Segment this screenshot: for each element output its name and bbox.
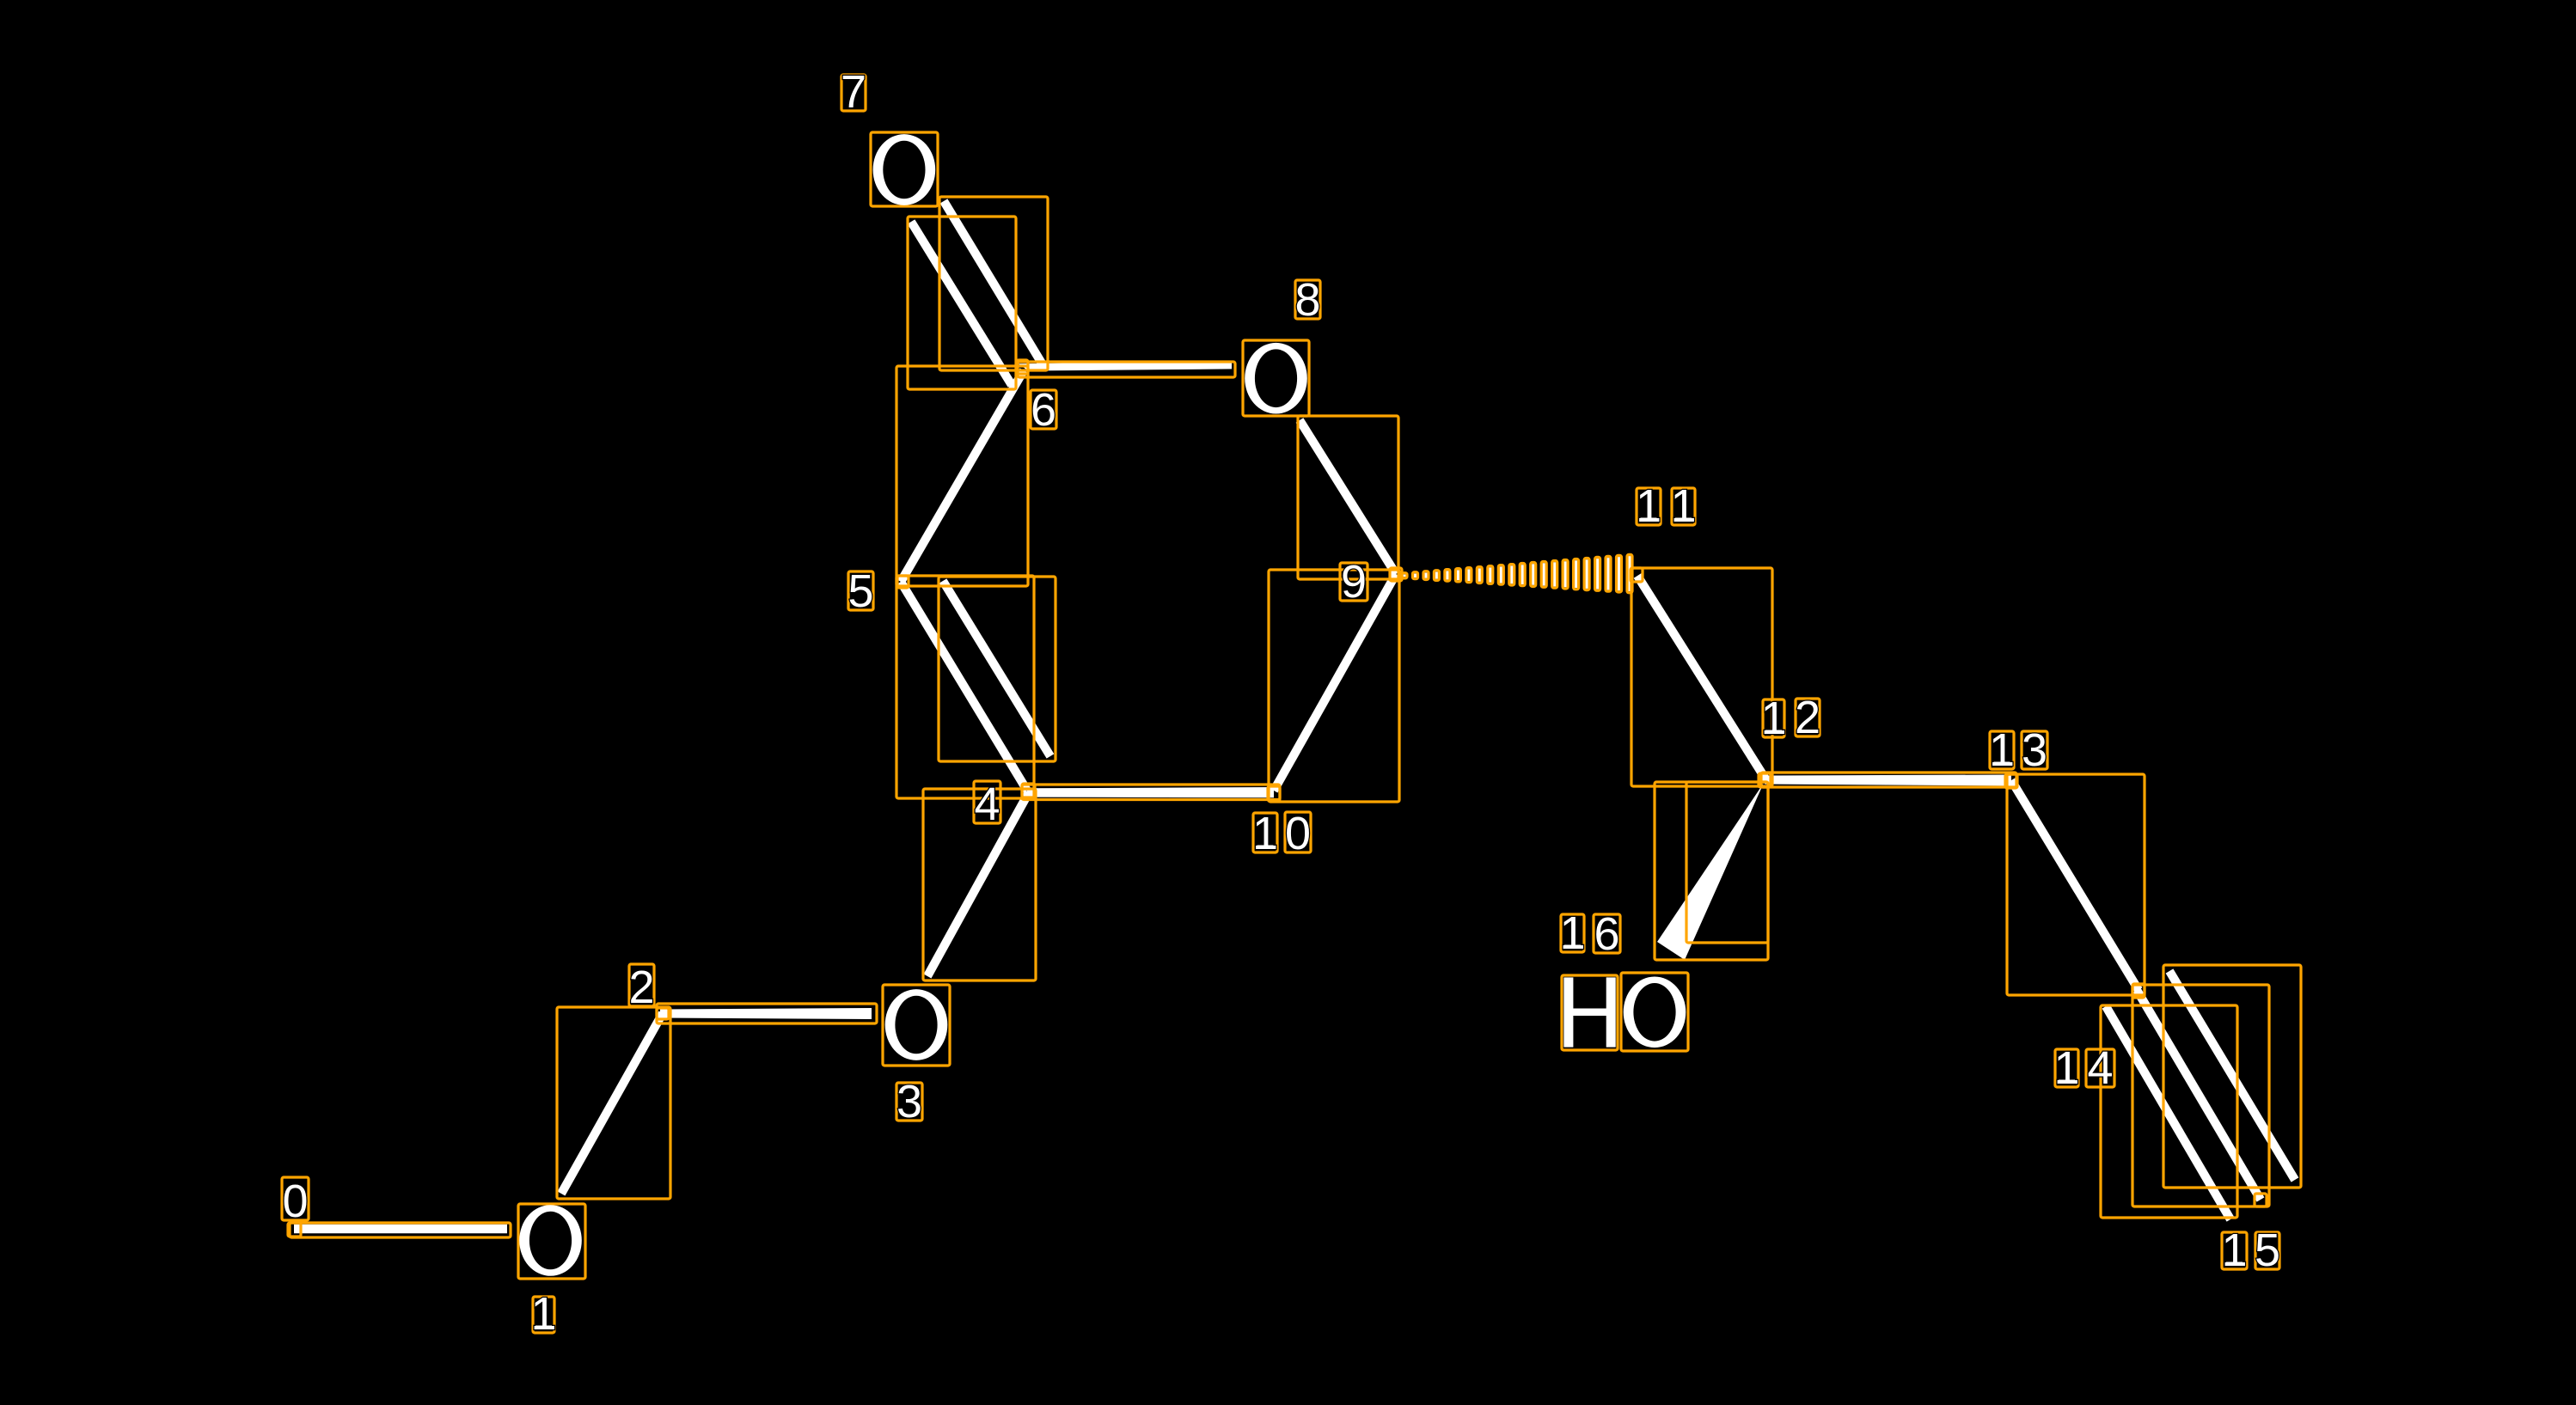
svg-text:8: 8	[1294, 274, 1320, 326]
svg-text:2: 2	[628, 962, 654, 1013]
svg-text:1: 1	[1670, 480, 1696, 532]
svg-text:4: 4	[2087, 1042, 2113, 1094]
svg-text:2: 2	[1795, 692, 1820, 743]
svg-text:6: 6	[1594, 908, 1619, 960]
svg-text:1: 1	[1252, 808, 1278, 859]
svg-text:3: 3	[2022, 724, 2047, 776]
svg-text:1: 1	[2053, 1042, 2079, 1094]
svg-text:1: 1	[1559, 907, 1585, 959]
svg-text:1: 1	[530, 1288, 556, 1340]
svg-text:5: 5	[847, 565, 873, 617]
svg-text:3: 3	[896, 1076, 922, 1127]
svg-text:4: 4	[974, 779, 1000, 830]
svg-text:1: 1	[1989, 724, 2015, 776]
svg-text:9: 9	[1341, 556, 1367, 608]
svg-text:1: 1	[1760, 693, 1786, 744]
svg-text:7: 7	[841, 66, 866, 118]
svg-text:0: 0	[282, 1176, 308, 1227]
svg-text:1: 1	[2221, 1225, 2247, 1276]
svg-text:1: 1	[1636, 480, 1661, 532]
svg-text:5: 5	[2255, 1225, 2280, 1276]
svg-text:6: 6	[1031, 384, 1056, 436]
svg-text:0: 0	[1285, 808, 1311, 859]
